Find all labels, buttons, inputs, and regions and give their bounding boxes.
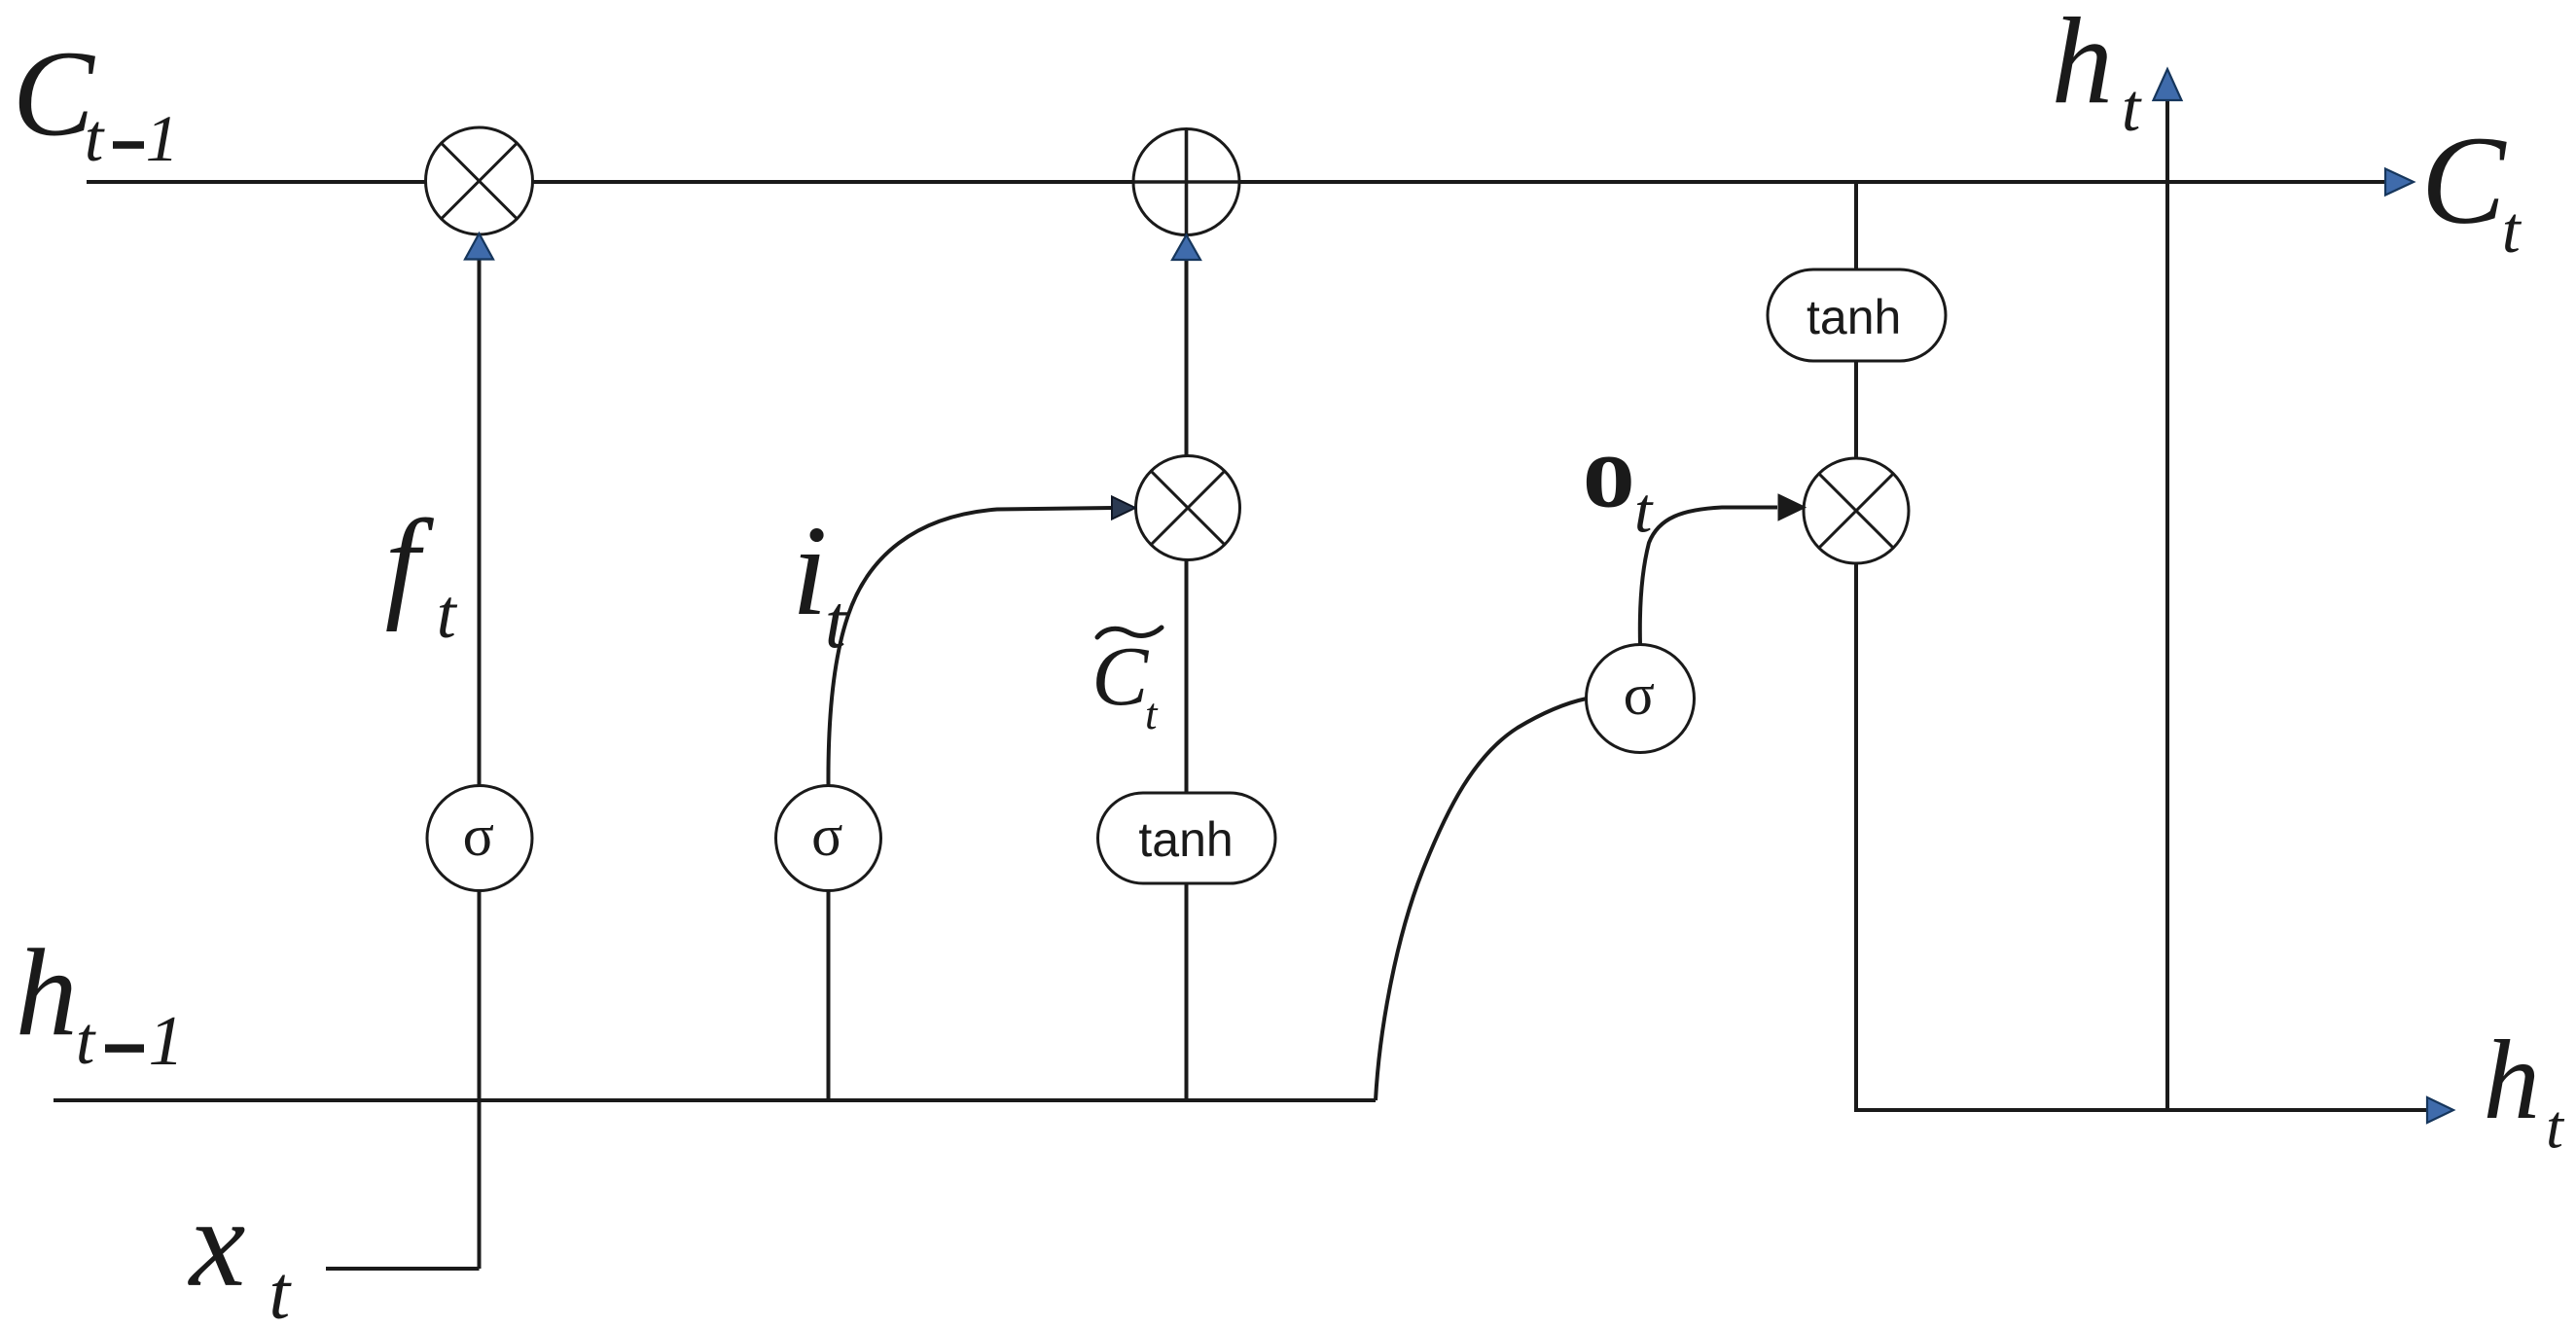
svg-text:f: f xyxy=(385,494,435,632)
svg-text:t: t xyxy=(1634,476,1654,547)
svg-text:t: t xyxy=(85,101,105,176)
svg-text:t: t xyxy=(1145,690,1159,738)
svg-text:i: i xyxy=(792,498,828,642)
svg-text:tanh: tanh xyxy=(1138,812,1233,867)
svg-text:1: 1 xyxy=(149,1001,185,1080)
svg-text:C: C xyxy=(13,26,96,161)
svg-text:t: t xyxy=(825,579,848,663)
svg-text:σ: σ xyxy=(1624,663,1655,727)
svg-text:h: h xyxy=(2052,0,2114,130)
svg-text:t: t xyxy=(2122,71,2142,146)
svg-text:h: h xyxy=(16,923,78,1061)
svg-text:t: t xyxy=(269,1250,293,1327)
svg-text:σ: σ xyxy=(811,804,842,868)
svg-text:h: h xyxy=(2484,1018,2541,1143)
svg-text:C: C xyxy=(1091,628,1149,723)
svg-text:t: t xyxy=(76,1004,96,1079)
svg-text:x: x xyxy=(188,1173,246,1313)
svg-text:t: t xyxy=(2546,1093,2565,1162)
svg-text:1: 1 xyxy=(146,101,179,175)
svg-text:t: t xyxy=(2502,193,2522,267)
svg-text:t: t xyxy=(437,575,458,653)
svg-text:tanh: tanh xyxy=(1807,290,1901,344)
svg-text:o: o xyxy=(1583,414,1635,530)
svg-text:σ: σ xyxy=(463,804,494,868)
svg-text:C: C xyxy=(2421,111,2507,251)
